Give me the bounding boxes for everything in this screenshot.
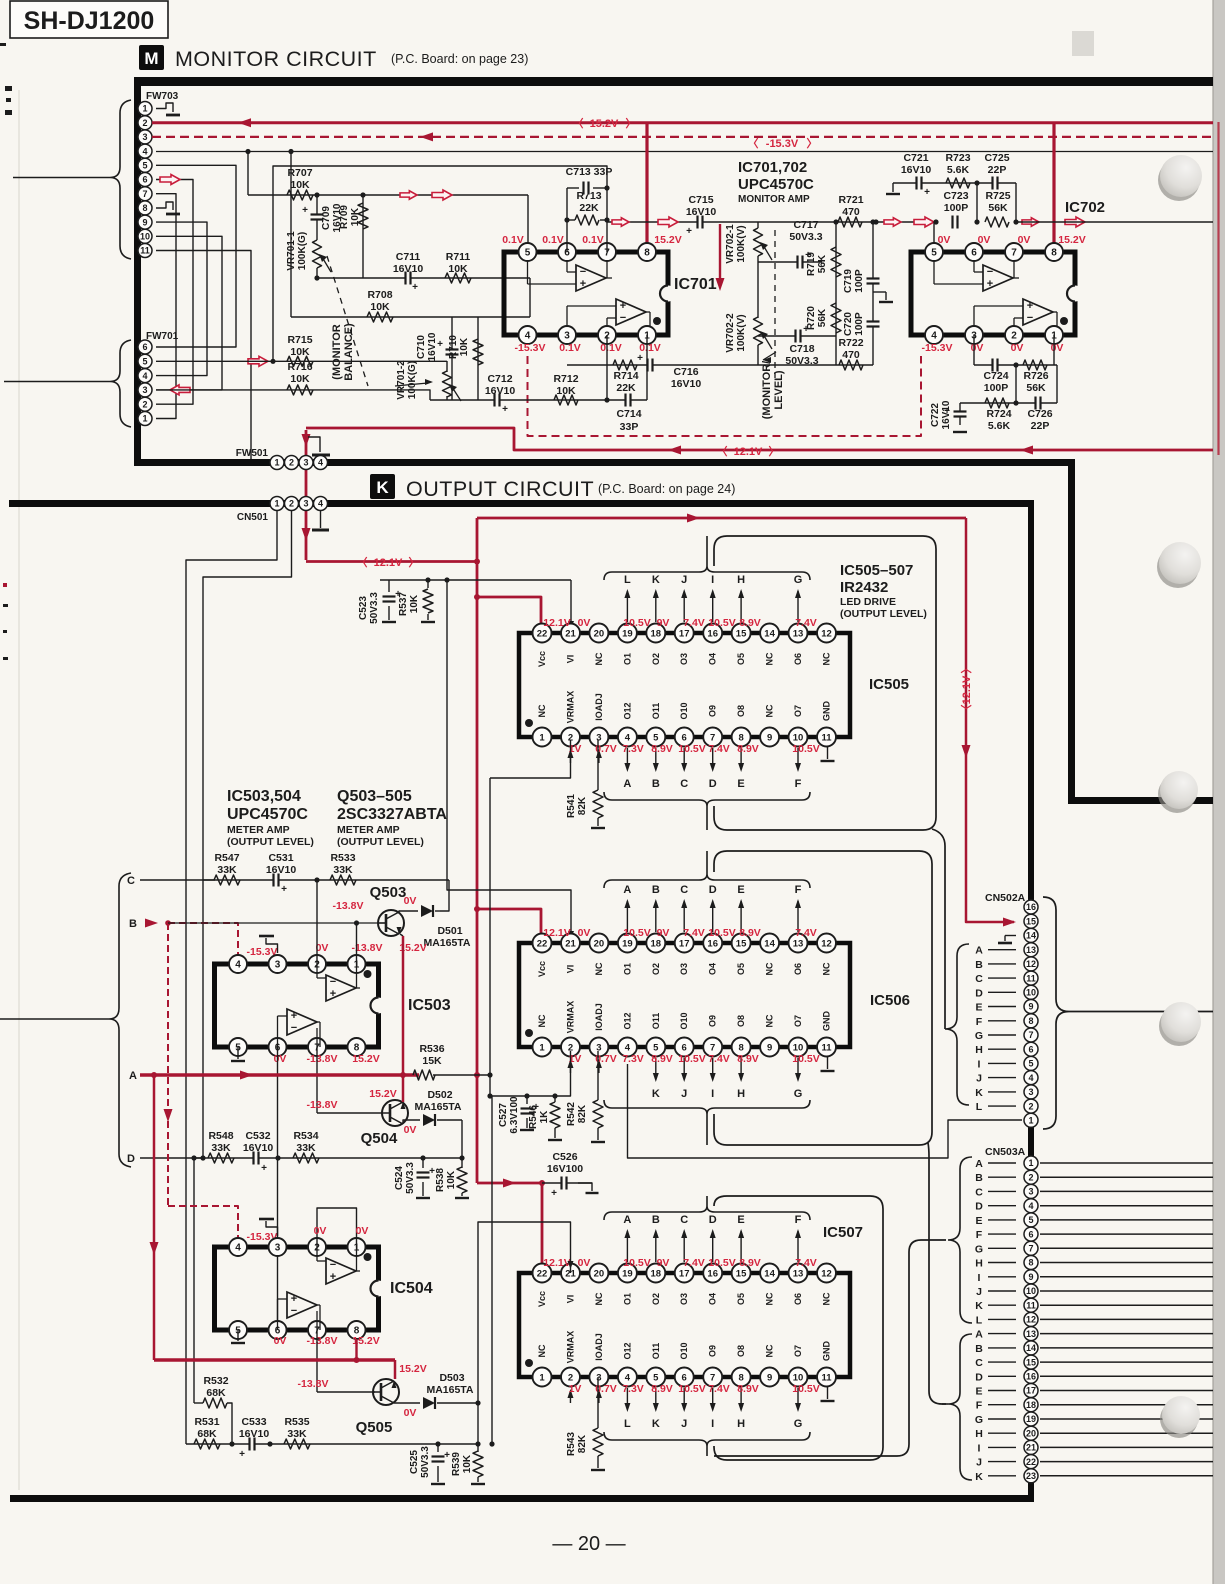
svg-text:A: A [975, 1329, 983, 1341]
ground stub below CN501 pin4 [312, 511, 329, 530]
wire R716 row [156, 390, 430, 400]
svg-text:1: 1 [539, 732, 545, 743]
svg-text:7.3V: 7.3V [622, 743, 644, 755]
svg-text:D: D [975, 1201, 983, 1213]
svg-text:NC: NC [537, 1014, 547, 1027]
svg-text:13: 13 [1026, 945, 1036, 955]
svg-text:3: 3 [1028, 1187, 1033, 1197]
svg-text:0.1V: 0.1V [502, 234, 524, 246]
12.1V arrow into CN502A pin15 [0, 0, 1, 1]
wire VI row IC505 [380, 580, 574, 633]
svg-text:O2: O2 [651, 963, 661, 975]
svg-text:MONITOR CIRCUIT: MONITOR CIRCUIT [175, 47, 377, 71]
svg-text:5: 5 [525, 248, 531, 259]
svg-text:0V: 0V [356, 1225, 369, 1237]
svg-text:8: 8 [1028, 1258, 1033, 1268]
voltage labels IC701 bottom [515, 342, 661, 354]
wire CN501 pin2 down [203, 511, 292, 1158]
svg-text:8.9V: 8.9V [651, 743, 673, 755]
svg-text:2: 2 [142, 399, 147, 409]
svg-text:470: 470 [842, 206, 860, 218]
svg-text:56K: 56K [1026, 382, 1046, 394]
svg-text:20: 20 [594, 628, 605, 639]
capacitor C712 [485, 373, 516, 415]
svg-text:20: 20 [594, 1268, 605, 1279]
svg-text:VRMAX: VRMAX [566, 1331, 576, 1364]
wire C711 row [317, 277, 530, 279]
svg-text:C710: C710 [416, 335, 427, 359]
svg-text:NC: NC [765, 1344, 775, 1357]
svg-text:B: B [652, 884, 660, 896]
svg-text:O7: O7 [793, 1015, 803, 1027]
svg-text:4: 4 [1028, 1073, 1033, 1083]
svg-text:R535: R535 [284, 1416, 309, 1428]
svg-text:F: F [976, 1016, 983, 1028]
svg-text:8.9V: 8.9V [739, 617, 761, 629]
chassis stub at FW703 pin 1 [156, 103, 180, 115]
svg-text:21: 21 [565, 938, 576, 949]
svg-text:16V100: 16V100 [547, 1163, 583, 1175]
svg-text:10: 10 [1026, 1286, 1036, 1296]
capacitor C725 [984, 152, 1009, 190]
ground stub at CN502A pin14 [998, 936, 1016, 944]
svg-text:6: 6 [682, 1042, 687, 1053]
svg-text:16: 16 [707, 628, 718, 639]
Q504 emitter to 15.2V rail [402, 1075, 405, 1102]
svg-text:4: 4 [525, 331, 531, 342]
svg-text:14: 14 [764, 938, 775, 949]
svg-text:R548: R548 [208, 1130, 233, 1142]
svg-text:E: E [737, 778, 744, 790]
brace CN503A group2 [948, 1334, 972, 1480]
svg-text:E: E [975, 1215, 982, 1227]
svg-text:O8: O8 [736, 1015, 746, 1027]
svg-text:7.4V: 7.4V [795, 617, 817, 629]
wire node B row [168, 920, 385, 925]
svg-text:K: K [652, 1088, 660, 1100]
svg-text:1: 1 [142, 414, 147, 424]
capacitor C726 [1027, 397, 1052, 433]
svg-text:−: − [291, 1022, 297, 1034]
svg-text:C709: C709 [321, 206, 332, 230]
15.2V Q505 row [154, 1357, 427, 1379]
svg-text:C722: C722 [930, 403, 941, 427]
svg-text:68K: 68K [206, 1387, 226, 1399]
bracket CN502A to output [1043, 897, 1213, 1129]
brace IC507 bottom letters [604, 1432, 810, 1456]
wire IC504 pin7 to Q505 base [317, 1330, 375, 1392]
wire FW703 pin9 to FW701 pin4 [156, 222, 207, 376]
svg-text:9: 9 [1028, 1272, 1033, 1282]
svg-text:33P: 33P [620, 421, 639, 433]
svg-text:82K: 82K [577, 796, 588, 815]
op-amp IC504 [215, 1238, 433, 1339]
svg-text:L: L [624, 1418, 631, 1430]
svg-text:VR701-1: VR701-1 [286, 231, 297, 271]
svg-text:8: 8 [738, 1372, 743, 1383]
binder hole 5 [1160, 1396, 1200, 1438]
svg-text:1: 1 [539, 1372, 545, 1383]
resistor R534 [293, 1130, 319, 1163]
svg-text:11: 11 [140, 246, 150, 256]
svg-text:Q503: Q503 [370, 884, 407, 901]
12.1V to IC506 Vcc [477, 909, 541, 943]
svg-text:CN502A: CN502A [985, 892, 1026, 904]
svg-text:O5: O5 [736, 963, 746, 975]
svg-text:19: 19 [622, 628, 633, 639]
15.2V from IC504 pin8 [355, 1339, 357, 1360]
svg-text:C726: C726 [1027, 408, 1052, 420]
svg-text:E: E [737, 884, 744, 896]
-15.3V dashed loop under IC701/IC702 [528, 356, 922, 436]
svg-text:5: 5 [142, 357, 147, 367]
svg-text:R531: R531 [194, 1416, 219, 1428]
svg-text:C714: C714 [616, 408, 641, 420]
wire IC503 pin6 chain [277, 1047, 279, 1327]
15.2V rail [152, 117, 1213, 130]
svg-text:12: 12 [1026, 1315, 1036, 1325]
svg-text:6: 6 [142, 342, 147, 352]
resistor R723 [945, 152, 970, 188]
svg-text:NC: NC [765, 704, 775, 717]
svg-text:16V10: 16V10 [485, 385, 516, 397]
wire column 492 [489, 1096, 494, 1447]
svg-text:VI: VI [566, 1295, 576, 1304]
connector FW501 [236, 448, 328, 470]
wire R715 tap to C713 node [270, 166, 607, 364]
svg-text:Q504: Q504 [361, 1130, 398, 1147]
svg-text:−: − [1027, 312, 1033, 324]
svg-text:5: 5 [653, 1042, 659, 1053]
svg-text:-13.8V: -13.8V [298, 1378, 329, 1390]
capacitor C718 [758, 324, 836, 367]
svg-text:〈: 〈 [357, 556, 368, 569]
svg-text:2: 2 [1011, 331, 1017, 342]
svg-text:−: − [330, 976, 336, 988]
svg-text:LEVEL): LEVEL) [773, 370, 785, 409]
svg-text:13: 13 [793, 628, 804, 639]
bracket nodes C B A D [0, 873, 131, 1167]
svg-text:12.1V: 12.1V [734, 446, 763, 458]
wire monitor row 222 [607, 221, 936, 223]
svg-text:0V: 0V [938, 234, 951, 246]
svg-text:8.9V: 8.9V [739, 1257, 761, 1269]
signal arrows after IC701 [612, 217, 678, 227]
svg-text:6: 6 [682, 1372, 687, 1383]
page-edge red return [1217, 122, 1219, 455]
svg-text:5: 5 [931, 248, 937, 259]
svg-text:IC505: IC505 [869, 676, 909, 693]
svg-text:1V: 1V [569, 1383, 582, 1395]
op-amp IC503 [215, 955, 451, 1056]
svg-text:10: 10 [1026, 988, 1036, 998]
voltage labels IC507 [543, 1257, 819, 1395]
svg-text:10.5V: 10.5V [678, 1383, 705, 1395]
svg-text:A: A [975, 1158, 983, 1170]
svg-text:C: C [975, 1186, 983, 1198]
svg-text:R710: R710 [448, 335, 459, 359]
resistor R721 [838, 194, 864, 227]
wire common column 490 [487, 778, 492, 1099]
svg-text:2: 2 [142, 118, 147, 128]
svg-text:10.5V: 10.5V [678, 743, 705, 755]
svg-text:4: 4 [318, 458, 323, 468]
svg-text:I: I [978, 1442, 981, 1454]
svg-text:C712: C712 [487, 373, 512, 385]
svg-text:O1: O1 [622, 963, 632, 975]
svg-text:6: 6 [1028, 1229, 1033, 1239]
svg-text:6: 6 [142, 175, 147, 185]
svg-text:J: J [681, 1418, 687, 1430]
wire FW703 pin7 to FW701 pin1 [156, 194, 176, 419]
svg-text:OUTPUT CIRCUIT: OUTPUT CIRCUIT [406, 477, 594, 501]
svg-text:11: 11 [821, 1372, 832, 1383]
wire IC702 output row [1016, 221, 1213, 223]
svg-text:R541: R541 [566, 794, 577, 818]
svg-text:IOADJ: IOADJ [594, 693, 604, 721]
svg-text:9V: 9V [657, 617, 670, 629]
svg-text:D: D [975, 987, 983, 999]
svg-text:K: K [652, 574, 660, 586]
svg-text:I: I [711, 1088, 714, 1100]
svg-text:3: 3 [596, 1372, 601, 1383]
svg-text:16V10: 16V10 [266, 864, 297, 876]
capacitor C525 [409, 1444, 450, 1484]
svg-text:R542: R542 [566, 1102, 577, 1126]
wire R708 row [291, 316, 530, 318]
resistor R720 [806, 303, 841, 333]
svg-text:14: 14 [1026, 931, 1036, 941]
svg-text:K: K [652, 1418, 660, 1430]
wire VI feed IC507 [478, 1222, 574, 1403]
svg-text:-13.8V: -13.8V [307, 1335, 338, 1347]
svg-text:3: 3 [275, 1243, 281, 1254]
svg-text:7.4V: 7.4V [795, 927, 817, 939]
ground near C719 [873, 292, 893, 302]
capacitor C717 [758, 219, 823, 269]
svg-text:11: 11 [1026, 973, 1036, 983]
svg-text:3: 3 [596, 732, 601, 743]
svg-text:NC: NC [594, 1292, 604, 1305]
svg-text:B: B [975, 959, 983, 971]
svg-text:33K: 33K [211, 1142, 231, 1154]
connector FW701 [4, 331, 179, 427]
svg-text:O6: O6 [793, 1293, 803, 1305]
svg-text:−: − [291, 1305, 297, 1317]
wire R715 row [156, 360, 447, 362]
wire C row to D501 [440, 880, 449, 911]
svg-text:8: 8 [142, 203, 147, 213]
svg-text:16V10: 16V10 [941, 400, 952, 429]
svg-text:R714: R714 [613, 370, 638, 382]
svg-text:0V: 0V [978, 234, 991, 246]
svg-text:12: 12 [1026, 959, 1036, 969]
svg-text:4: 4 [625, 1372, 631, 1383]
svg-text:10.5V: 10.5V [792, 743, 819, 755]
svg-text:0V: 0V [971, 342, 984, 354]
svg-text:3: 3 [303, 499, 308, 509]
wire into IC702 pin5 [933, 219, 938, 252]
resistor R542 [566, 1051, 605, 1142]
svg-text:10.5V: 10.5V [708, 617, 735, 629]
signal arrows on R707 row [400, 190, 452, 200]
svg-text:C723: C723 [943, 190, 968, 202]
bus loop IC507 [714, 1196, 883, 1460]
svg-text:13: 13 [793, 1268, 804, 1279]
svg-text:56K: 56K [817, 308, 828, 327]
svg-text:R533: R533 [330, 852, 355, 864]
voltage labels IC503 [274, 942, 383, 1065]
svg-text:50V3.3: 50V3.3 [405, 1162, 416, 1194]
resistor R715 [287, 334, 313, 366]
svg-text:1: 1 [1028, 1158, 1033, 1168]
capacitor C723 [943, 190, 968, 229]
12.1V feed through pin3 [302, 430, 311, 560]
svg-text:10K: 10K [290, 179, 310, 191]
svg-text:NC: NC [537, 1344, 547, 1357]
svg-text:O5: O5 [736, 653, 746, 665]
svg-text:H: H [737, 574, 745, 586]
svg-text:100P: 100P [984, 382, 1009, 394]
wire CN501 pin1 down [186, 511, 277, 1444]
node D [127, 1153, 205, 1165]
output circuit frame [9, 500, 1034, 1502]
svg-text:R708: R708 [367, 289, 392, 301]
svg-text:〉: 〉 [409, 556, 420, 569]
svg-text:R719: R719 [806, 252, 817, 276]
svg-text:8.9V: 8.9V [737, 743, 759, 755]
svg-text:C724: C724 [983, 370, 1008, 382]
svg-text:D: D [709, 778, 717, 790]
svg-text:22: 22 [1026, 1457, 1036, 1467]
resistor R724 [985, 398, 1012, 432]
svg-text:7.4V: 7.4V [683, 617, 705, 629]
svg-text:IC702: IC702 [1065, 199, 1105, 216]
svg-text:R546: R546 [528, 1105, 539, 1129]
svg-text:18: 18 [651, 938, 662, 949]
svg-text:R720: R720 [806, 306, 817, 330]
svg-text:21: 21 [1026, 1443, 1036, 1453]
resistor R709 [339, 192, 368, 278]
signal arrow FW701 pin3 [170, 385, 190, 395]
svg-text:15.2V: 15.2V [1058, 234, 1085, 246]
resistor R535 [284, 1416, 310, 1449]
connector CN502A [985, 892, 1038, 1127]
svg-text:+: + [261, 1163, 267, 1174]
page number [552, 1533, 625, 1555]
resistor R711 [445, 251, 471, 283]
svg-text:15: 15 [736, 938, 747, 949]
svg-text:C531: C531 [268, 852, 293, 864]
svg-text:33K: 33K [217, 864, 237, 876]
svg-text:9: 9 [142, 217, 147, 227]
svg-text:7.4V: 7.4V [708, 1053, 730, 1065]
svg-text:7.3V: 7.3V [622, 1383, 644, 1395]
svg-text:19: 19 [1026, 1414, 1036, 1424]
svg-text:4: 4 [1028, 1201, 1033, 1211]
svg-text:22K: 22K [616, 382, 636, 394]
voltage labels IC504 [274, 1225, 380, 1347]
svg-text:GND: GND [822, 1341, 832, 1362]
15.2V drop to IC701 pin8 [645, 123, 648, 252]
svg-text:1: 1 [274, 458, 279, 468]
svg-text:O12: O12 [622, 1342, 632, 1359]
svg-text:— 20 —: — 20 — [552, 1533, 625, 1555]
svg-text:O11: O11 [651, 1013, 661, 1030]
capacitor C722 [930, 400, 967, 432]
svg-text:2: 2 [289, 499, 294, 509]
svg-text:2: 2 [289, 458, 294, 468]
capacitor C527 [498, 1093, 539, 1133]
svg-text:IOADJ: IOADJ [594, 1003, 604, 1031]
diode D503 [423, 1372, 478, 1409]
svg-text:+: + [291, 1010, 297, 1022]
svg-text:O10: O10 [679, 1012, 689, 1029]
svg-text:16V10: 16V10 [427, 332, 438, 361]
svg-text:METER AMP: METER AMP [337, 824, 400, 836]
svg-text:0V: 0V [274, 1335, 287, 1347]
svg-text:33K: 33K [333, 864, 353, 876]
wire upper row IC702 [886, 183, 1016, 194]
svg-text:7: 7 [1028, 1030, 1033, 1040]
svg-text:C: C [680, 778, 688, 790]
wire R707 feed from upper return [245, 149, 250, 195]
diode D502 [414, 1089, 462, 1158]
svg-text:11: 11 [821, 1042, 832, 1053]
svg-text:3: 3 [142, 132, 147, 142]
svg-text:8.9V: 8.9V [739, 927, 761, 939]
svg-text:3: 3 [142, 385, 147, 395]
svg-text:10K: 10K [556, 385, 576, 397]
svg-text:7: 7 [142, 189, 147, 199]
svg-text:MA165TA: MA165TA [414, 1101, 461, 1113]
svg-text:C719: C719 [843, 269, 854, 293]
svg-text:3: 3 [596, 1042, 601, 1053]
svg-text:R711: R711 [446, 251, 471, 263]
svg-text:82K: 82K [577, 1434, 588, 1453]
svg-text:6: 6 [971, 248, 977, 259]
svg-text:+: + [281, 884, 287, 895]
svg-text:C720: C720 [843, 312, 854, 336]
svg-text:B: B [129, 918, 137, 930]
svg-text:0V: 0V [404, 1407, 417, 1419]
svg-text:C: C [975, 973, 983, 985]
svg-text:4: 4 [931, 331, 937, 342]
svg-text:+: + [239, 1449, 245, 1460]
voltage label Q505 0V [404, 1407, 417, 1419]
svg-text:E: E [975, 1386, 982, 1398]
svg-text:+: + [620, 300, 626, 312]
svg-text:5: 5 [142, 161, 147, 171]
svg-text:15.2V: 15.2V [399, 1363, 426, 1375]
voltage label Q504 0V [404, 1124, 417, 1136]
svg-text:0.1V: 0.1V [542, 234, 564, 246]
svg-text:5: 5 [1028, 1059, 1033, 1069]
svg-text:-15.3V: -15.3V [922, 342, 953, 354]
svg-text:O6: O6 [793, 963, 803, 975]
svg-text:0V: 0V [578, 617, 591, 629]
capacitor C721 [901, 152, 932, 198]
15.2V label below A [369, 1088, 396, 1100]
wire bottom row 1444 [186, 1400, 481, 1446]
svg-text:B: B [652, 1214, 660, 1226]
svg-text:O7: O7 [793, 705, 803, 717]
svg-text:3: 3 [1028, 1087, 1033, 1097]
capacitor C533 [239, 1416, 270, 1460]
svg-text:-13.8V: -13.8V [307, 1053, 338, 1065]
svg-text:C715: C715 [688, 194, 713, 206]
svg-text:K: K [975, 1300, 983, 1312]
